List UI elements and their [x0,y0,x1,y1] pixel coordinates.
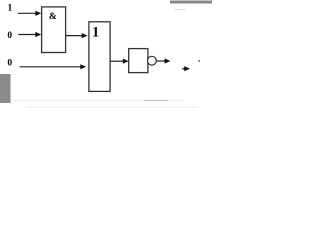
wire U3 output [156,60,165,62]
NOT gate U3 box [129,49,148,73]
svg-text:1: 1 [92,25,99,41]
svg-text:0: 0 [7,31,12,41]
wire input 0 (third) [20,66,82,68]
wire input 0 (second) [18,34,36,36]
arrowhead input 0 (second) [35,32,41,37]
wire U2 output to U3 [110,60,124,62]
stray output arrow [182,68,185,70]
AND gate U1 box [42,7,66,53]
faint rule line 1 [11,100,184,101]
scrollbar fragment bottom-left [0,74,11,103]
arrowhead U2 output [123,59,129,64]
stray dot [198,60,200,62]
arrowhead U3 output [165,58,171,63]
faint rule line 2 [26,107,198,108]
arrowhead input 0 (third) [80,64,86,69]
wire input 1 [18,12,37,14]
scrollbar fragment top-right [170,1,212,4]
faint dark segment on rule line 1 [144,100,168,101]
svg-text:&: & [49,12,57,22]
NOT gate U3 inversion bubble [148,56,157,65]
svg-text:1: 1 [8,4,13,14]
OR gate U2 box [89,22,110,92]
wire U1 output to U2 [66,35,83,37]
arrowhead U1 output [82,33,88,38]
arrowhead input 1 [35,11,41,16]
light gray tick top-right [174,9,186,10]
svg-text:0: 0 [7,58,12,68]
